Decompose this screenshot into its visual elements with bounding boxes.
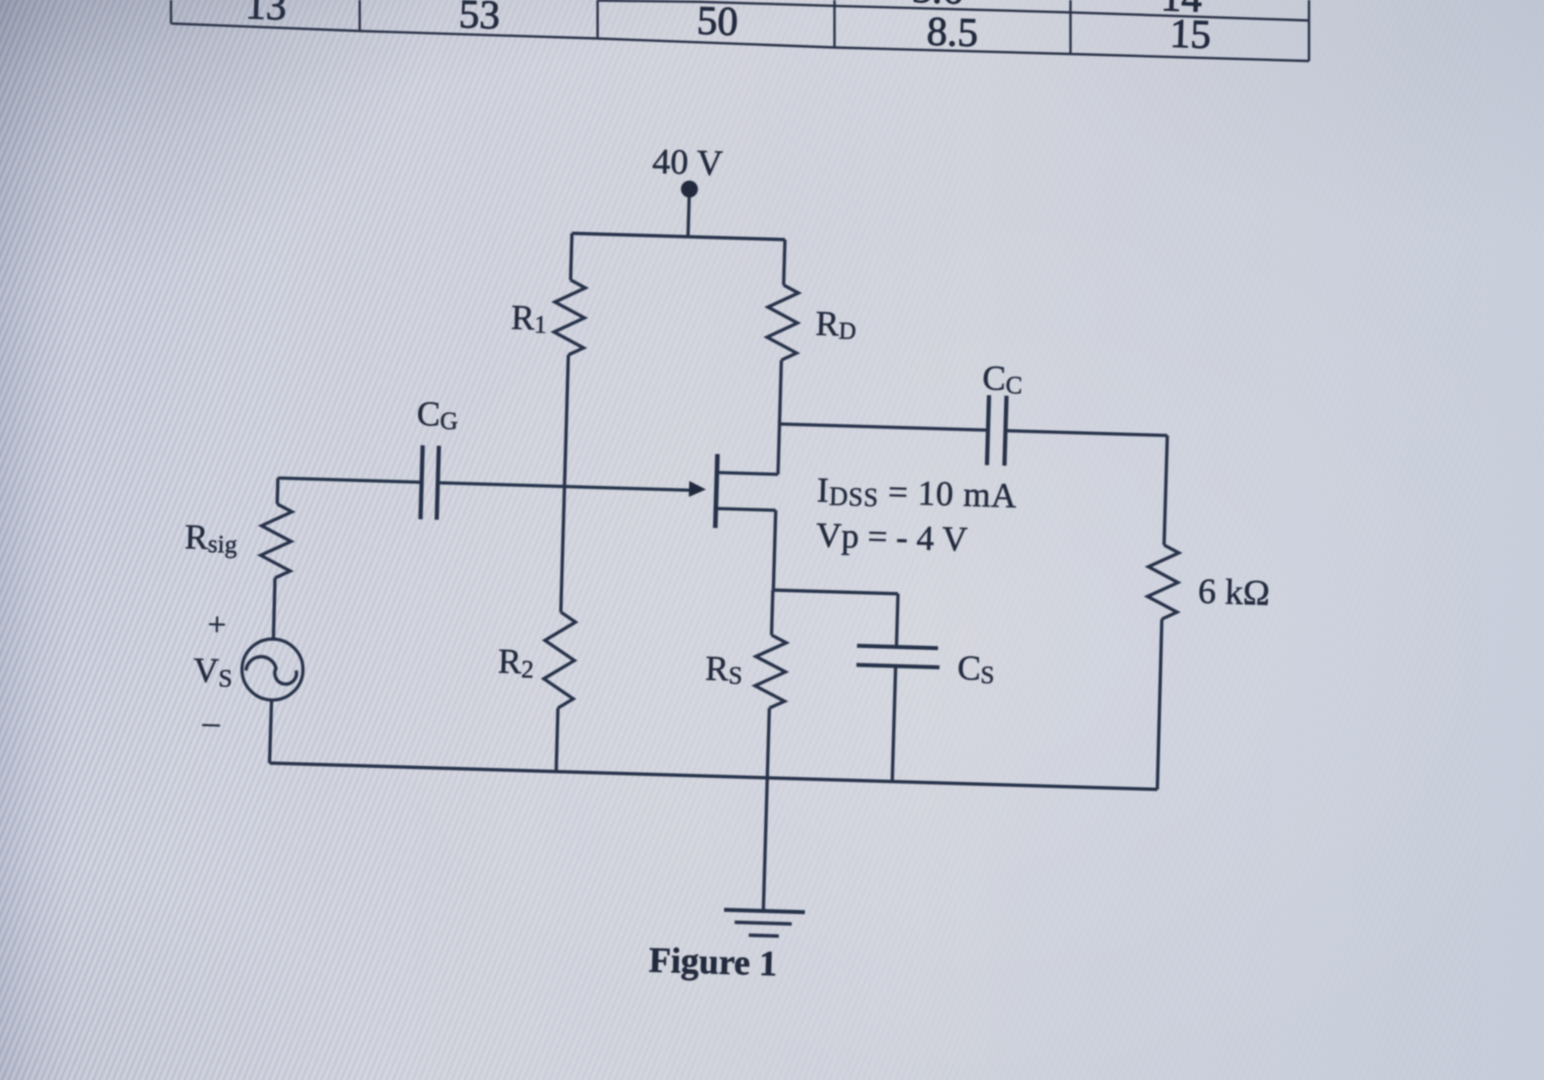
svg-text:–: – (201, 704, 221, 742)
svg-text:R1: R1 (510, 298, 547, 339)
svg-text:53: 53 (458, 0, 501, 38)
svg-text:CG: CG (416, 394, 459, 435)
svg-text:6 kΩ: 6 kΩ (1198, 571, 1271, 613)
svg-text:8.5: 8.5 (926, 8, 979, 56)
svg-text:RS: RS (705, 649, 743, 690)
svg-text:Vp = - 4 V: Vp = - 4 V (816, 516, 968, 559)
svg-text:40 V: 40 V (652, 141, 724, 183)
svg-text:CC: CC (982, 358, 1023, 399)
svg-text:14: 14 (1160, 0, 1203, 21)
svg-text:50: 50 (696, 0, 739, 44)
svg-text:R2: R2 (497, 642, 534, 684)
svg-text:5.6: 5.6 (911, 0, 964, 13)
svg-text:Rsig: Rsig (184, 517, 238, 559)
svg-text:+: + (207, 607, 227, 644)
svg-text:RD: RD (815, 304, 857, 345)
svg-text:Figure 1: Figure 1 (648, 940, 777, 984)
svg-text:CS: CS (957, 648, 995, 689)
svg-text:VS: VS (193, 651, 233, 693)
svg-text:15: 15 (1169, 10, 1212, 57)
svg-text:IDSS = 10 mA: IDSS = 10 mA (816, 471, 1017, 517)
svg-text:13: 13 (245, 0, 288, 29)
